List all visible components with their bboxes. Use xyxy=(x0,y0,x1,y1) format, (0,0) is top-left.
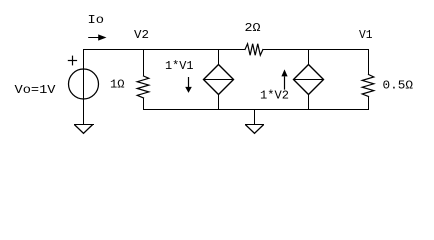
dependent source E2 midline xyxy=(294,79,324,81)
wire right branch bottom xyxy=(368,97,370,110)
wire top rail left segment xyxy=(84,49,246,51)
ground left triangle sides xyxy=(74,125,92,134)
resistor R3 0.5ohm zigzag xyxy=(362,75,374,97)
voltage source V circle xyxy=(69,69,99,99)
dependent source E1 midline xyxy=(204,79,234,81)
svg-text:Io: Io xyxy=(88,13,105,27)
wire left vertical through source xyxy=(83,50,85,125)
arrow 1*V1 head xyxy=(185,87,192,93)
svg-text:V2: V2 xyxy=(134,28,149,42)
arrow 1*V2 shaft xyxy=(284,76,286,89)
arrow 1*V1 shaft xyxy=(188,77,190,88)
svg-text:2Ω: 2Ω xyxy=(245,21,261,35)
arrow Io head xyxy=(98,34,106,40)
dependent source E1 diamond xyxy=(204,65,234,95)
wire diamond1 bottom stub xyxy=(218,95,220,110)
wire mid ground stub xyxy=(254,110,256,125)
ground middle triangle sides xyxy=(245,125,263,134)
svg-text:Vo=1V: Vo=1V xyxy=(15,83,57,97)
wire diamond1 top stub xyxy=(218,50,220,65)
dependent source E2 diamond xyxy=(294,65,324,95)
wire V2 branch bottom xyxy=(143,98,145,110)
wire top rail right segment xyxy=(263,49,369,51)
plus sign xyxy=(68,60,76,62)
ground left bar xyxy=(74,124,94,126)
wire right branch top xyxy=(368,50,370,75)
svg-text:1*V2: 1*V2 xyxy=(260,89,289,103)
wire diamond2 bottom stub xyxy=(308,95,310,110)
wire V2 branch top xyxy=(143,50,145,77)
arrow 1*V2 head xyxy=(281,69,287,76)
svg-text:0.5Ω: 0.5Ω xyxy=(383,78,414,92)
wire bottom rail xyxy=(144,109,369,111)
svg-text:V1: V1 xyxy=(359,28,373,42)
ground middle bar xyxy=(245,124,264,126)
arrow Io shaft xyxy=(89,37,100,39)
svg-text:1*V1: 1*V1 xyxy=(165,59,194,73)
wire diamond2 top stub xyxy=(308,50,310,65)
resistor R2 2ohm zigzag xyxy=(245,44,263,55)
resistor R1 1ohm zigzag xyxy=(137,76,149,98)
svg-text:1Ω: 1Ω xyxy=(110,78,125,92)
